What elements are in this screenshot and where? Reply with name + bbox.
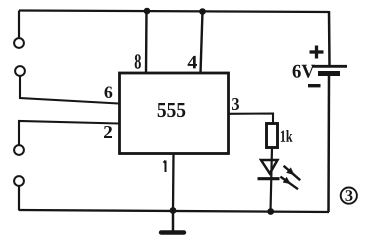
battery minus sign	[308, 84, 321, 87]
LED emission arrow 2	[280, 177, 298, 190]
pin label 4	[188, 56, 197, 69]
wire: pin 3 output	[229, 114, 274, 125]
terminal 4 circle	[14, 176, 24, 186]
ground symbol	[161, 211, 184, 233]
op IC U1 555 body	[120, 73, 229, 154]
battery plus sign	[310, 46, 324, 59]
wire: pin 1 to ground node	[172, 154, 175, 212]
battery B1 negative plate (short thick)	[318, 71, 340, 76]
battery B1 positive plate (long)	[312, 65, 347, 68]
terminal 1 circle	[14, 38, 24, 48]
LED D1 triangle	[261, 160, 278, 174]
label 6V	[293, 65, 315, 78]
pin label 3	[232, 98, 239, 110]
junction dot pin1/bottom rail	[170, 207, 177, 214]
wire: terminal 4 riser to bottom rail	[18, 187, 20, 211]
LED D1 cathode bar	[258, 177, 280, 180]
wire: bottom rail	[19, 210, 329, 212]
label 1k	[281, 130, 293, 142]
node label circled 3	[341, 188, 357, 204]
wire: right rail top drop to battery	[328, 11, 331, 65]
terminal 2 circle	[15, 66, 25, 76]
junction dot pin4/top rail	[199, 8, 206, 15]
wire: top supply rail	[19, 11, 329, 13]
wire: terminal 3 to pin 2	[19, 121, 119, 145]
pin label 6	[105, 87, 113, 99]
label 555	[158, 103, 186, 117]
wire: pin 4 to top rail	[201, 12, 203, 74]
wire: terminal 1 riser to top rail	[18, 11, 20, 38]
terminal 3 circle	[14, 145, 24, 155]
resistor R1 body	[267, 124, 278, 148]
wire: pin 8 to top rail	[145, 11, 148, 73]
pin label 2	[104, 126, 112, 138]
wire: terminal 2 to pin 6	[20, 77, 119, 104]
pin label 1	[164, 161, 166, 173]
LED emission arrow 1	[284, 166, 301, 180]
junction dot LED/bottom rail	[267, 208, 274, 215]
pin label 8	[135, 54, 141, 68]
wire: resistor to LED to bottom rail	[271, 148, 273, 212]
junction dot pin8/top rail	[144, 8, 151, 15]
wire: right rail battery to bottom	[327, 75, 330, 212]
